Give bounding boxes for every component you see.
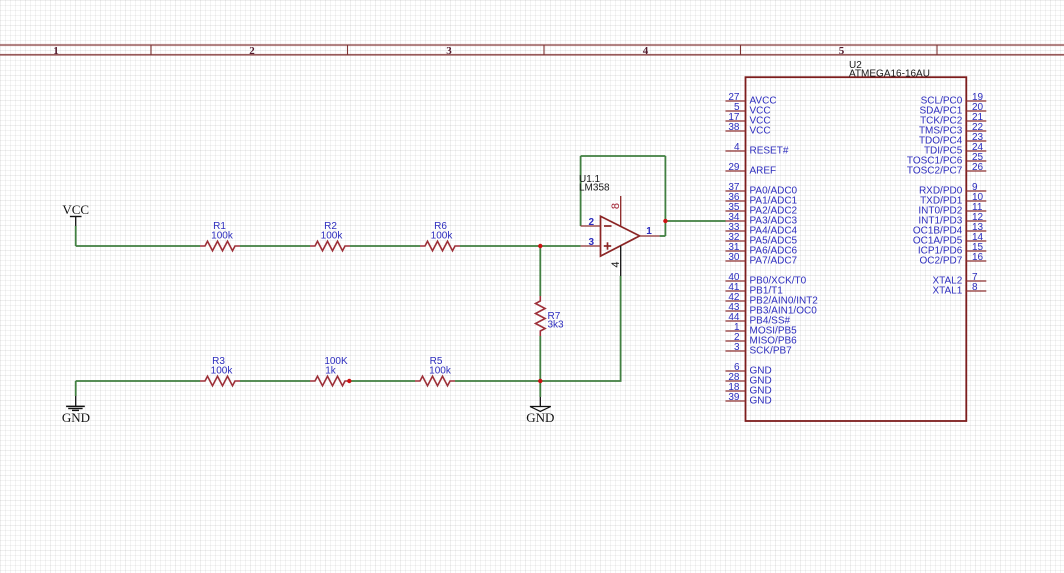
svg-text:4: 4 bbox=[610, 261, 622, 267]
wire output stub bbox=[660, 235, 666, 237]
U2 pin 29 AREF (left) bbox=[726, 162, 777, 177]
svg-text:VCC: VCC bbox=[62, 202, 89, 217]
op-amp pin 2 (inverting input) bbox=[581, 217, 601, 228]
ruler tick 1 bbox=[150, 45, 152, 55]
svg-text:29: 29 bbox=[728, 162, 740, 173]
ruler tick 3 bbox=[543, 45, 545, 55]
U2 pin 39 GND (left) bbox=[726, 392, 772, 407]
op-amp pin 1 (output) bbox=[640, 226, 660, 237]
svg-text:GND: GND bbox=[526, 410, 554, 425]
ruler tick 2 bbox=[347, 45, 349, 55]
ground GND (left, earth bars) bbox=[62, 396, 90, 425]
resistor R2 bbox=[310, 221, 350, 251]
U2 pin 10 TXD/PD1 (right) bbox=[920, 192, 986, 207]
U2 pin 28 GND (left) bbox=[726, 372, 772, 387]
svg-text:3k3: 3k3 bbox=[548, 320, 565, 331]
resistor 100K bbox=[310, 356, 350, 386]
svg-text:2: 2 bbox=[589, 217, 595, 228]
U2 pin 34 PA3/ADC3 (left) bbox=[726, 212, 798, 227]
wire node A drop to R7 bbox=[539, 246, 541, 296]
svg-text:30: 30 bbox=[728, 252, 740, 263]
svg-text:ATMEGA16-16AU: ATMEGA16-16AU bbox=[849, 69, 930, 80]
svg-text:3: 3 bbox=[734, 342, 740, 353]
U2 pin 44 PB4/SS# (left) bbox=[726, 312, 791, 327]
svg-text:3: 3 bbox=[446, 45, 452, 57]
svg-text:PA7/ADC7: PA7/ADC7 bbox=[750, 256, 798, 267]
svg-text:4: 4 bbox=[734, 142, 740, 153]
svg-text:16: 16 bbox=[972, 252, 984, 263]
U2 pin 15 ICP1/PD6 (right) bbox=[918, 242, 986, 257]
svg-text:1: 1 bbox=[646, 226, 652, 237]
wire R6 to opamp pin3 bbox=[460, 245, 581, 247]
resistor R6 bbox=[420, 221, 460, 251]
U2 pin 27 AVCC (left) bbox=[726, 92, 777, 107]
U2 pin 40 PB0/XCK/T0 (left) bbox=[726, 272, 807, 287]
svg-text:8: 8 bbox=[610, 203, 622, 209]
svg-text:GND: GND bbox=[62, 410, 90, 425]
wire GND to R3 bbox=[76, 380, 200, 382]
wire GND drop right bbox=[539, 381, 541, 397]
U2 pin 9 RXD/PD0 (right) bbox=[919, 182, 986, 197]
U2 pin 4 RESET# (left) bbox=[726, 142, 789, 157]
ruler top line bbox=[0, 44, 1064, 46]
U2 pin 14 OC1A/PD5 (right) bbox=[913, 232, 986, 247]
svg-text:100k: 100k bbox=[321, 231, 344, 242]
U2 pin 12 INT1/PD3 (right) bbox=[918, 212, 986, 227]
op-amp pin 4 (V-) bbox=[610, 246, 622, 276]
svg-text:38: 38 bbox=[728, 122, 740, 133]
wire VCC to R1 bbox=[76, 245, 200, 247]
U2 pin 7 XTAL2 (right) bbox=[932, 272, 986, 287]
U2 pin 8 XTAL1 (right) bbox=[932, 282, 986, 297]
U2 pin 13 OC1B/PD4 (right) bbox=[913, 222, 986, 237]
U2 pin 43 PB3/AIN1/OC0 (left) bbox=[726, 302, 818, 317]
U2 pin 11 INT0/PD2 (right) bbox=[918, 202, 986, 217]
wire R1 to R2 bbox=[240, 245, 310, 247]
svg-text:1k: 1k bbox=[325, 366, 337, 377]
wire GND drop left bbox=[75, 381, 77, 396]
svg-text:XTAL1: XTAL1 bbox=[932, 286, 962, 297]
wire R2 to R6 bbox=[350, 245, 420, 247]
svg-text:5: 5 bbox=[839, 45, 845, 57]
wire VCC drop bbox=[75, 226, 77, 246]
svg-text:100k: 100k bbox=[429, 366, 452, 377]
node B (R4-R5 junction) bbox=[347, 379, 351, 383]
ruler bottom line bbox=[0, 54, 1064, 56]
U2 pin 36 PA1/ADC1 (left) bbox=[726, 192, 798, 207]
ruler tick 5 bbox=[936, 45, 938, 55]
IC U2 ATMEGA16-16AU body bbox=[746, 60, 967, 421]
op-amp pin 8 (V+) bbox=[610, 196, 622, 226]
U2 pin 23 TDO/PC4 (right) bbox=[919, 132, 986, 147]
U2 pin 17 VCC (left) bbox=[726, 112, 771, 127]
wire R3 to R4 bbox=[240, 380, 310, 382]
svg-text:4: 4 bbox=[643, 45, 649, 57]
U2 pin 20 SDA/PC1 (right) bbox=[920, 102, 987, 117]
resistor R5 bbox=[415, 356, 455, 386]
U2 pin 21 TCK/PC2 (right) bbox=[920, 112, 986, 127]
wire feedback top bbox=[581, 155, 666, 157]
svg-text:26: 26 bbox=[972, 162, 984, 173]
svg-text:RESET#: RESET# bbox=[750, 146, 789, 157]
svg-text:2: 2 bbox=[249, 45, 255, 57]
ground GND (right, triangle) bbox=[526, 397, 554, 425]
node A (R7 top junction) bbox=[538, 244, 542, 248]
resistor R3 bbox=[200, 356, 240, 386]
power symbol VCC bbox=[62, 202, 89, 226]
svg-text:3: 3 bbox=[589, 237, 595, 248]
svg-text:8: 8 bbox=[972, 282, 978, 293]
op-amp U1 bbox=[579, 174, 640, 256]
U2 pin 26 TOSC2/PC7 (right) bbox=[907, 162, 986, 177]
node C (R7 bottom junction) bbox=[538, 379, 542, 383]
ruler tick 4 bbox=[740, 45, 742, 55]
U2 pin 24 TDI/PC5 (right) bbox=[924, 142, 986, 157]
svg-text:VCC: VCC bbox=[750, 126, 771, 137]
U2 pin 38 VCC (left) bbox=[726, 122, 771, 137]
svg-text:LM358: LM358 bbox=[579, 183, 610, 194]
U2 pin 25 TOSC1/PC6 (right) bbox=[907, 152, 986, 167]
node OUT junction bbox=[663, 219, 667, 223]
U2 pin 5 VCC (left) bbox=[726, 102, 771, 117]
svg-text:AREF: AREF bbox=[750, 166, 777, 177]
U2 pin 30 PA7/ADC7 (left) bbox=[726, 252, 798, 267]
svg-text:TOSC2/PC7: TOSC2/PC7 bbox=[907, 166, 963, 177]
U2 pin 41 PB1/T1 (left) bbox=[726, 282, 784, 297]
U2 pin 42 PB2/AIN0/INT2 (left) bbox=[726, 292, 819, 307]
resistor R1 bbox=[200, 221, 240, 251]
svg-text:GND: GND bbox=[750, 396, 772, 407]
wire R7 to lower node bbox=[539, 336, 541, 381]
U2 pin 35 PA2/ADC2 (left) bbox=[726, 202, 798, 217]
svg-text:100k: 100k bbox=[431, 231, 454, 242]
U2 pin 32 PA5/ADC5 (left) bbox=[726, 232, 798, 247]
svg-text:OC2/PD7: OC2/PD7 bbox=[920, 256, 963, 267]
U2 pin 6 GND (left) bbox=[726, 362, 772, 377]
svg-text:1: 1 bbox=[53, 45, 59, 57]
wire R5 to opamp pin4 riser bbox=[455, 276, 621, 381]
U2 pin 33 PA4/ADC4 (left) bbox=[726, 222, 798, 237]
U2 pin 3 SCK/PB7 (left) bbox=[726, 342, 793, 357]
U2 pin 22 TMS/PC3 (right) bbox=[919, 122, 986, 137]
U2 pin 19 SCL/PC0 (right) bbox=[921, 92, 987, 107]
U2 pin 37 PA0/ADC0 (left) bbox=[726, 182, 798, 197]
svg-text:39: 39 bbox=[728, 392, 740, 403]
svg-text:100k: 100k bbox=[211, 366, 234, 377]
wire feedback right vertical bbox=[664, 156, 666, 236]
U2 pin 31 PA6/ADC6 (left) bbox=[726, 242, 798, 257]
wire output to PA3 bbox=[665, 220, 725, 222]
U2 pin 16 OC2/PD7 (right) bbox=[920, 252, 987, 267]
svg-text:SCK/PB7: SCK/PB7 bbox=[750, 346, 793, 357]
U2 pin 18 GND (left) bbox=[726, 382, 772, 397]
U2 pin 1 MOSI/PB5 (left) bbox=[726, 322, 798, 337]
wire feedback left vertical bbox=[580, 156, 582, 226]
resistor R7 bbox=[536, 296, 565, 336]
wire R4 node to R5 bbox=[349, 380, 415, 382]
svg-text:100k: 100k bbox=[211, 231, 234, 242]
op-amp pin 3 (non-inverting input) bbox=[581, 237, 601, 248]
U2 pin 2 MISO/PB6 (left) bbox=[726, 332, 798, 347]
